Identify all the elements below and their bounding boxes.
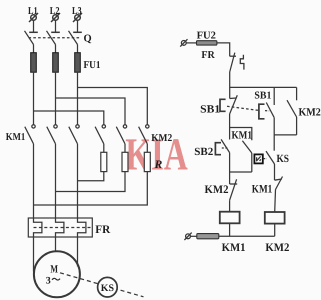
wire KM1 contact1 down to FR (33, 144, 35, 218)
wire terminal to bottom fuse (190, 235, 196, 237)
wire to KM1 coil (229, 200, 231, 212)
wire contact4 to resistor (103, 144, 105, 153)
svg-text:KM1: KM1 (6, 132, 26, 143)
terminal L3 (73, 13, 82, 22)
SB1 NO link dash (265, 110, 269, 112)
coil KM2 (265, 212, 285, 224)
wire resistor c to column1 (34, 172, 148, 205)
SB2 linkage dashed (222, 147, 228, 149)
pushbutton SB2 NO (221, 128, 230, 153)
wire KM2 coil to rail (274, 224, 276, 237)
KS actuator glyph (256, 156, 261, 161)
resistor R phase a (101, 152, 107, 171)
svg-text:KM1: KM1 (232, 130, 253, 142)
wire branch L2 to KM2 column5 (56, 98, 126, 125)
speed switch KS contact (266, 151, 275, 164)
wire FU2 to FR contact (217, 43, 230, 56)
svg-text:KM2: KM2 (299, 106, 321, 118)
SB1 NO actuator (259, 104, 265, 119)
contact KM2 NO selfhold (287, 87, 297, 134)
contact KM1 NC interlock (275, 177, 283, 190)
wire FR to motor w (77, 237, 79, 267)
wire FR contact to SB1 (229, 72, 231, 99)
wire KM2 selfhold join (274, 134, 296, 136)
wire branch L1 to KM2 column4 (34, 111, 104, 125)
svg-text:SB2: SB2 (194, 146, 213, 158)
wire L3 to fuse (77, 45, 79, 54)
wire SB1 NO down (273, 118, 275, 151)
pushbutton SB1 NC (230, 95, 238, 114)
svg-text:SB1: SB1 (254, 91, 271, 102)
wire bottom rail (219, 235, 275, 237)
wire KM1 contact3 down to FR (77, 144, 79, 218)
fuse bottom (197, 234, 219, 239)
FR linkage dashed (34, 227, 92, 229)
wire FR to motor v (55, 237, 57, 251)
contactor KM1 main contact 2 (47, 125, 57, 144)
FR heater element 3 (78, 218, 86, 237)
svg-text:Q: Q (84, 33, 92, 44)
wire terminal to FU2 (186, 42, 196, 44)
coil KM1 (220, 212, 240, 224)
control terminal bottom (184, 233, 191, 240)
wire SB2 down to rejoin (229, 153, 231, 184)
wire contact5 to resistor (124, 144, 126, 153)
SB2 button actuator (215, 143, 221, 155)
wire KS to KM1 NC (274, 164, 276, 180)
contactor KM1 main contact 3 (69, 125, 79, 144)
SB1 linkage dashed (227, 106, 258, 110)
wire KM1 selfhold down (251, 153, 253, 172)
thermal relay FR box (28, 218, 92, 237)
svg-text:M: M (50, 264, 58, 276)
wire SB1 to parallel node (229, 114, 231, 128)
wire rail to SB1 NO (273, 87, 275, 105)
fuse FU2 (197, 41, 217, 45)
SB1 button actuator (220, 99, 226, 111)
wire column2 fuse to KM1 contact (55, 72, 57, 125)
switch Q pole 2 (47, 20, 60, 44)
fuse FU1 pole 2 (53, 53, 59, 72)
switch Q pole 1 (25, 20, 38, 44)
resistor R phase c (144, 152, 150, 171)
svg-text:R: R (154, 159, 163, 171)
contactor KM2 main contact 4 (95, 125, 105, 144)
terminal L2 (51, 13, 60, 22)
fuse FU1 pole 3 (75, 53, 81, 72)
KS actuator box (254, 154, 262, 163)
wire resistor a to column3 (78, 172, 104, 181)
motor M circle (34, 251, 80, 297)
contactor KM2 main contact 5 (116, 125, 126, 144)
contact KM1 NO selfhold (242, 141, 251, 153)
svg-text:KM2: KM2 (151, 133, 172, 144)
contact KM2 NC interlock (230, 179, 238, 200)
svg-text:KM2: KM2 (265, 242, 289, 254)
svg-text:FU1: FU1 (84, 60, 101, 71)
fuse FU1 pole 1 (31, 53, 37, 72)
FR heater element 1 (34, 218, 42, 237)
wire parallel branch top (230, 128, 252, 141)
contactor KM1 main contact 1 (25, 125, 35, 144)
speed relay KS circle (98, 277, 118, 297)
wire KM1 contact2 down to FR (55, 144, 57, 218)
FR trip hook (240, 55, 244, 70)
svg-text:FU2: FU2 (197, 30, 216, 41)
svg-text:SB1: SB1 (200, 104, 220, 116)
FR NC contact (230, 53, 236, 72)
svg-text:L2: L2 (50, 6, 60, 17)
wire column1 fuse to KM1 contact (33, 72, 35, 125)
svg-text:KS: KS (277, 153, 290, 165)
svg-text:KM1: KM1 (252, 184, 273, 196)
wire to KM2 coil (274, 190, 277, 213)
pushbutton SB1 NO contact (266, 103, 274, 118)
wire FR to motor u (33, 237, 35, 272)
wire column3 fuse to KM1 contact (77, 72, 79, 125)
KS dashed tick (264, 158, 267, 160)
resistor R phase b (122, 152, 128, 171)
svg-text:FR: FR (95, 224, 111, 236)
wire branch L3 to KM2 column6 (78, 88, 148, 125)
switch Q linkage dashed (29, 37, 80, 39)
wire L2 to fuse (55, 45, 57, 54)
switch Q pole 3 (69, 20, 82, 44)
wire top rail to KM2 branch (230, 86, 297, 88)
wire resistor b to column2 (56, 172, 126, 192)
speed relay link dashed (60, 273, 144, 297)
control terminal top (180, 39, 187, 46)
svg-text:L3: L3 (72, 6, 82, 17)
svg-text:KM2: KM2 (205, 184, 229, 196)
FR heater element 2 (56, 218, 64, 237)
wire KM1 coil to rail (229, 223, 231, 236)
svg-text:KM1: KM1 (222, 242, 246, 254)
terminal L1 (29, 13, 38, 22)
contactor KM2 main contact 6 (139, 125, 149, 144)
svg-text:L1: L1 (28, 6, 38, 17)
svg-text:FR: FR (201, 50, 215, 61)
svg-text:KS: KS (101, 283, 115, 294)
wire contact6 to resistor (146, 144, 148, 153)
wire L1 to fuse (33, 45, 35, 54)
svg-text:3: 3 (46, 275, 51, 286)
wire parallel rejoin (230, 171, 252, 173)
